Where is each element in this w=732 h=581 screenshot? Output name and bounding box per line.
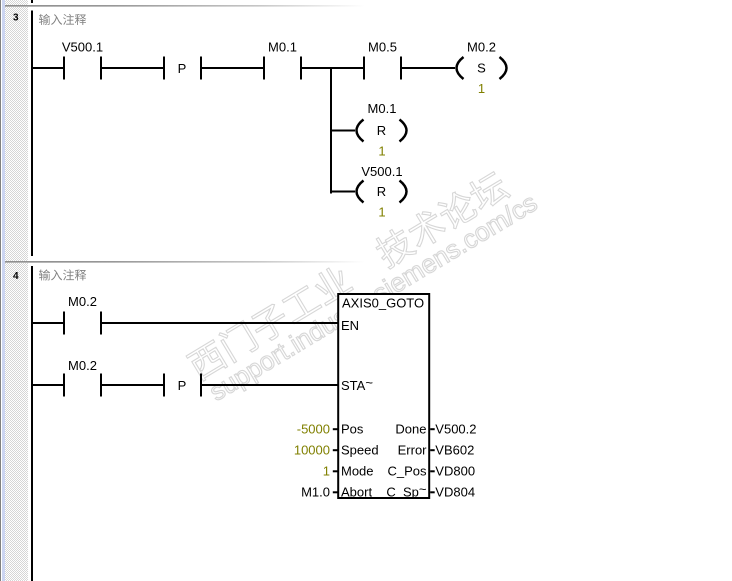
svg-text:3: 3 bbox=[13, 13, 19, 24]
svg-text:VD804: VD804 bbox=[435, 485, 475, 500]
svg-text:V500.2: V500.2 bbox=[435, 421, 476, 436]
svg-text:1: 1 bbox=[378, 205, 385, 220]
svg-text:R: R bbox=[377, 123, 386, 138]
svg-text:S: S bbox=[477, 61, 486, 76]
svg-text:M0.1: M0.1 bbox=[368, 101, 397, 116]
svg-text:M0.2: M0.2 bbox=[68, 358, 97, 373]
svg-text:C_Pos: C_Pos bbox=[387, 464, 427, 479]
svg-text:R: R bbox=[377, 184, 386, 199]
svg-text:Done: Done bbox=[395, 421, 426, 436]
svg-text:AXIS0_GOTO: AXIS0_GOTO bbox=[342, 296, 424, 311]
svg-text:VB602: VB602 bbox=[435, 442, 474, 457]
svg-text:1: 1 bbox=[378, 144, 385, 159]
svg-text:4: 4 bbox=[13, 271, 19, 282]
svg-text:VD800: VD800 bbox=[435, 464, 475, 479]
svg-text:V500.1: V500.1 bbox=[62, 40, 103, 55]
svg-text:V500.1: V500.1 bbox=[361, 164, 402, 179]
svg-text:Pos: Pos bbox=[341, 421, 364, 436]
svg-text:M0.2: M0.2 bbox=[68, 294, 97, 309]
svg-text:M1.0: M1.0 bbox=[301, 485, 330, 500]
svg-text:-5000: -5000 bbox=[297, 421, 330, 436]
svg-text:10000: 10000 bbox=[294, 442, 330, 457]
svg-text:Abort: Abort bbox=[341, 485, 372, 500]
svg-text:P: P bbox=[178, 61, 187, 76]
svg-text:Mode: Mode bbox=[341, 464, 374, 479]
svg-text:1: 1 bbox=[323, 464, 330, 479]
svg-text:EN: EN bbox=[341, 318, 359, 333]
svg-text:1: 1 bbox=[478, 81, 485, 96]
svg-text:P: P bbox=[178, 378, 187, 393]
svg-text:M0.1: M0.1 bbox=[268, 40, 297, 55]
svg-text:M0.5: M0.5 bbox=[368, 40, 397, 55]
svg-text:M0.2: M0.2 bbox=[467, 40, 496, 55]
svg-text:Error: Error bbox=[398, 442, 428, 457]
svg-text:Speed: Speed bbox=[341, 442, 379, 457]
